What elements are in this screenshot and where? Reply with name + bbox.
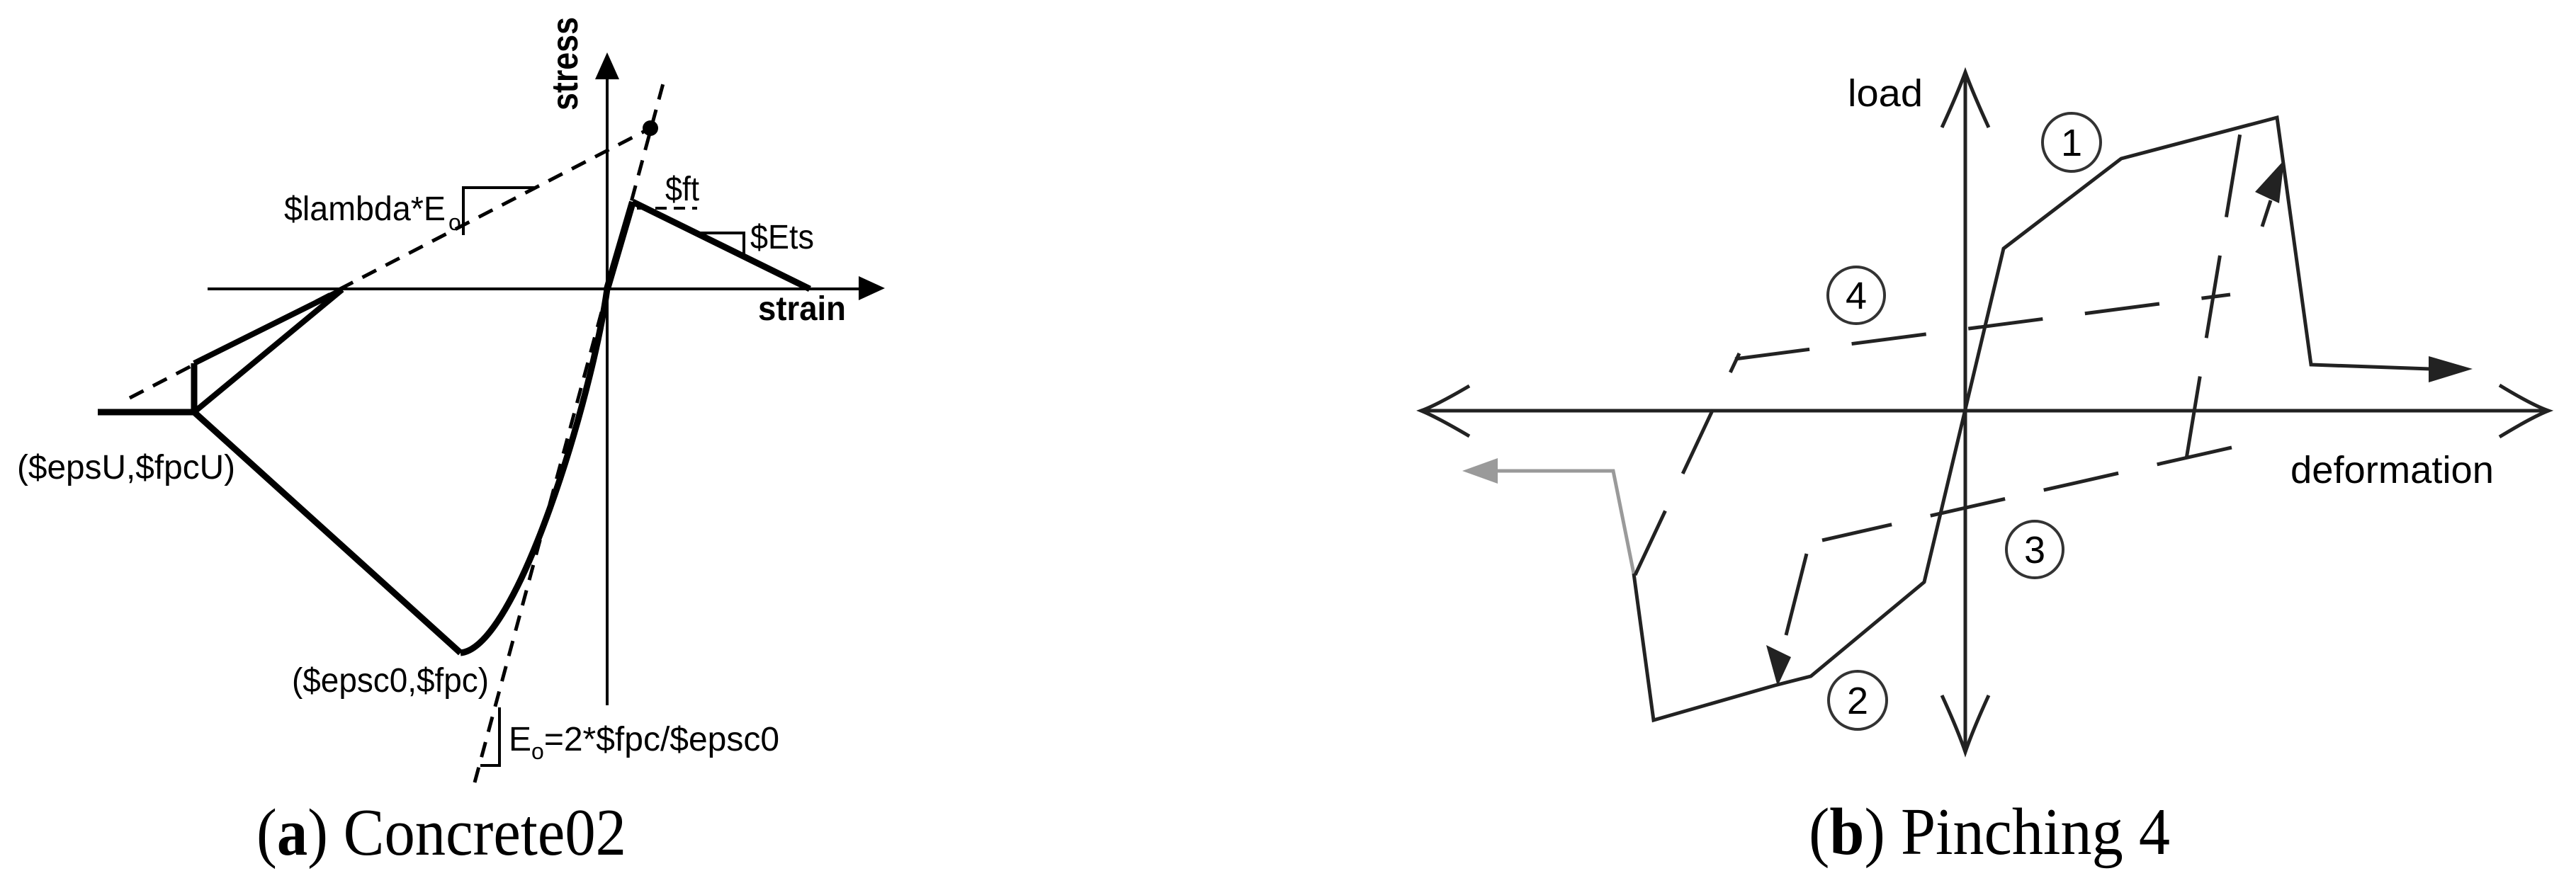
svg-text:deformation: deformation xyxy=(2290,449,2494,491)
x-axis (deformation) xyxy=(1421,385,2548,437)
dashed reload path right (steep) xyxy=(2186,133,2240,459)
unload direction arrow (down) xyxy=(1766,645,1791,686)
svg-text:$lambda*E: $lambda*E xyxy=(284,190,446,228)
svg-text:4: 4 xyxy=(1846,275,1867,317)
y-axis (stress) xyxy=(595,52,619,705)
svg-text:1: 1 xyxy=(2061,122,2082,164)
solid hysteresis backbone xyxy=(1634,118,2430,720)
dashed path 4 (gentle) xyxy=(1735,295,2230,359)
svg-text:o: o xyxy=(448,210,461,235)
y-axis (load) xyxy=(1942,72,1989,752)
slope marker E_o xyxy=(480,707,499,765)
svg-text:2: 2 xyxy=(1847,680,1868,722)
svg-text:($epsU,$fpcU): ($epsU,$fpcU) xyxy=(17,449,235,486)
x-axis (strain) xyxy=(208,276,885,300)
slope marker for $lambda*E_o xyxy=(463,188,535,235)
dashed line $lambda*E_o (unload slope) xyxy=(130,128,650,398)
circled 3 xyxy=(2006,521,2063,578)
envelope: linear softening ($epsc0,$fpc)->($epsU,$fpcU) xyxy=(194,412,461,653)
dashed leader at $ft level xyxy=(637,207,697,210)
gray unload arrow (left) xyxy=(1462,458,1634,574)
dashed line E_o initial tangent xyxy=(475,84,663,782)
dashed path 3 (gentle) xyxy=(1822,448,2232,540)
envelope: parabolic branch origin->($epsc0,$fpc) xyxy=(461,289,607,653)
circled 1 xyxy=(2043,113,2101,171)
tension rise origin->$ft xyxy=(607,202,633,289)
svg-text:strain: strain xyxy=(758,290,846,328)
arrow at end of solid path xyxy=(2429,356,2473,382)
svg-text:$Ets: $Ets xyxy=(750,219,814,256)
svg-text:Eo=2*$fpc/$epsc0: Eo=2*$fpc/$epsc0 xyxy=(509,721,779,764)
envelope: plateau at ($epsU,$fpcU) xyxy=(98,409,194,416)
reload direction arrow (up) xyxy=(2255,160,2284,227)
slope marker $Ets xyxy=(694,233,744,256)
svg-text:stress: stress xyxy=(545,17,586,110)
unload wedge upper line xyxy=(194,290,342,363)
dashed path 3 (steep end) xyxy=(1786,554,1807,635)
unload wedge lower line xyxy=(194,290,342,412)
circled 4 xyxy=(1828,267,1885,324)
dot where dashed lines meet xyxy=(643,120,658,136)
circled 2 xyxy=(1829,671,1887,729)
svg-text:3: 3 xyxy=(2024,529,2045,571)
svg-text:(a) Concrete02: (a) Concrete02 xyxy=(256,796,626,870)
svg-text:load: load xyxy=(1848,72,1923,115)
envelope: vertical drop at $epsU xyxy=(191,363,198,412)
tension softening $ft->axis xyxy=(633,202,810,289)
svg-text:(b) Pinching 4: (b) Pinching 4 xyxy=(1809,795,2170,869)
svg-text:($epsc0,$fpc): ($epsc0,$fpc) xyxy=(292,662,489,700)
dashed reload path left (steep) xyxy=(1635,353,1739,575)
svg-text:$ft: $ft xyxy=(665,171,699,208)
